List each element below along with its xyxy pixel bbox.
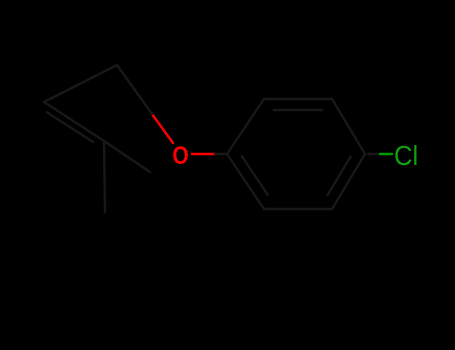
benzene right inner double line <box>328 157 351 196</box>
svg-text:O: O <box>172 141 188 169</box>
benzene edge BR-BL <box>264 208 332 210</box>
double bond C2=C3 main line <box>44 102 104 141</box>
benzene edge TR-R <box>332 99 365 154</box>
benzene top inner double line <box>274 109 322 111</box>
benzene edge TL-TR <box>264 98 332 100</box>
benzene edge R-BR <box>332 154 365 209</box>
bond C3-C5 methyl right <box>104 141 150 172</box>
svg-text:Cl: Cl <box>394 140 418 171</box>
bond C3-C4 methyl down <box>104 141 105 212</box>
benzene edge L-TL <box>227 99 264 154</box>
bond ring-Cl dark half <box>368 153 380 155</box>
bond O-CH2 carbon half <box>117 65 152 114</box>
bond O-ring carbon half <box>215 153 227 155</box>
bond ring-Cl green half <box>380 153 392 155</box>
bond O-ring red half <box>192 153 216 155</box>
benzene edge BL-L <box>227 154 264 209</box>
benzene left inner double line <box>242 156 268 195</box>
bond O-CH2 red half <box>152 114 173 143</box>
double bond C2=C3 second line <box>47 112 93 142</box>
bond C1-C2 <box>44 65 117 102</box>
